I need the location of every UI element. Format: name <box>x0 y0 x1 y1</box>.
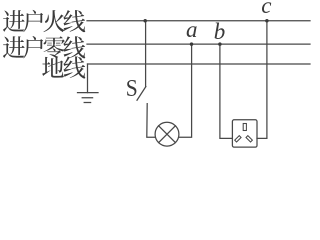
svg-text:S: S <box>126 75 138 102</box>
wire: neutral line (进户零线) <box>87 43 310 45</box>
svg-text:b: b <box>214 19 226 44</box>
wire: switch lower terminal to lamp <box>147 104 156 138</box>
label 进户零线 (incoming neutral wire) <box>3 36 85 58</box>
label 进户火线 (incoming live wire) <box>3 10 85 32</box>
label 地线 (earth wire) <box>42 56 85 78</box>
ground symbol <box>78 93 99 103</box>
svg-text:c: c <box>261 0 271 18</box>
junction dot: switch branch on live line <box>143 19 147 23</box>
wire: earth drop to ground symbol <box>87 64 89 93</box>
socket (3-pin outlet) <box>232 120 257 147</box>
svg-text:a: a <box>186 17 198 42</box>
wire: live line (进户火线) <box>87 20 310 22</box>
wire: node c riser to socket <box>257 21 267 139</box>
wire: live line drop to switch <box>145 21 147 87</box>
switch S blade (open) <box>137 87 146 101</box>
lamp (circle with X) <box>155 122 179 146</box>
junction dot: node c <box>265 19 269 23</box>
wire: node b riser to socket <box>220 44 233 138</box>
junction dot: node a <box>190 42 194 46</box>
wire: earth line (地线) <box>88 63 311 65</box>
junction dot: node b <box>218 42 222 46</box>
wire: lamp to node a riser <box>179 44 192 137</box>
